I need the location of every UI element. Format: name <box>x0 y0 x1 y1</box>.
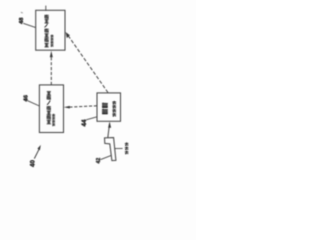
arrowhead into 48 bottom (from 46) <box>50 51 53 58</box>
svg-text:44: 44 <box>81 119 88 127</box>
arrowhead into 46 right (from 44) <box>64 106 70 109</box>
dashed wire 44 to 48 diagonal <box>69 36 108 92</box>
arrowhead of 40 <box>37 145 40 150</box>
box 46 (display unit small) <box>39 85 63 133</box>
solid wire sensor to 44 <box>108 123 110 138</box>
box46 label text line1 column <box>47 92 51 124</box>
sensor name katakana column <box>125 142 129 154</box>
box 48 (display unit) <box>36 10 65 50</box>
box 44 (control unit) <box>97 93 121 121</box>
leader line sensor name <box>115 147 123 149</box>
leader line to 48 <box>23 23 36 27</box>
box44 label text line2 column <box>112 101 116 117</box>
svg-text:40: 40 <box>29 160 36 167</box>
box46 label text line2 column <box>52 114 55 126</box>
speck top left <box>21 11 23 14</box>
svg-text:46: 46 <box>24 94 30 101</box>
svg-text:48: 48 <box>19 17 25 24</box>
dashed wire 46 to 48 <box>50 57 52 85</box>
tick mark above box 48 <box>45 6 47 11</box>
box48 label text line2 column <box>51 35 54 47</box>
leader line to 44 <box>86 117 97 120</box>
sensor 42 shape <box>105 138 116 161</box>
arrowhead into 48 right (diagonal from 44) <box>66 32 70 38</box>
svg-text:42: 42 <box>96 158 102 164</box>
arrowhead into 44 bottom (from sensor) <box>108 122 111 128</box>
leader line to 46 <box>27 100 40 106</box>
box44 label text line1 column (dense) <box>102 103 108 114</box>
leader line to 42 <box>101 155 112 159</box>
dashed wire 44 to 46 <box>70 106 98 107</box>
box48 label text line1 column <box>45 15 49 47</box>
arrow 40 line <box>34 149 39 158</box>
